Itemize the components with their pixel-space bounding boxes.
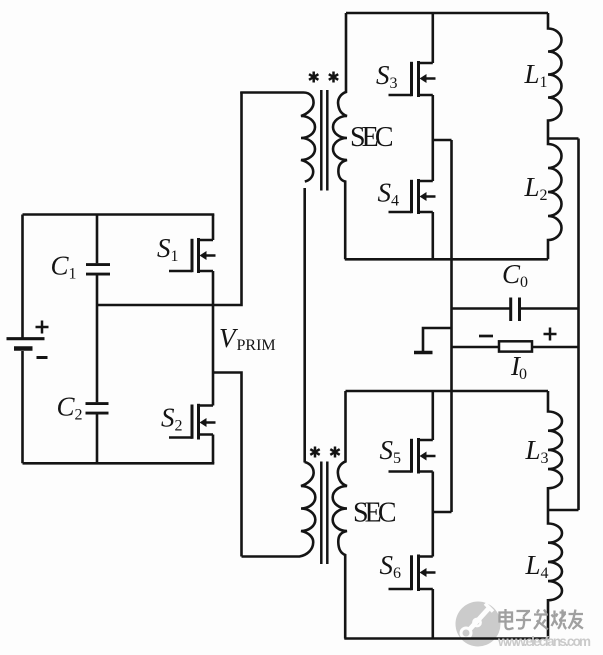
- wire bottom rail of upper output section: [345, 258, 548, 261]
- ground: [414, 328, 452, 353]
- polarity mark T1 primary: [309, 72, 318, 83]
- svg-text:C2: C2: [57, 392, 83, 424]
- transformer T2 core: [321, 462, 327, 565]
- svg-text:L1: L1: [524, 59, 548, 91]
- wire S6 source rail: [431, 589, 434, 639]
- transistor S1: [169, 238, 216, 273]
- capacitor C0: [452, 298, 579, 322]
- svg-text:L2: L2: [524, 172, 548, 204]
- svg-text:S6: S6: [380, 550, 402, 582]
- wire top rail of lower output section: [346, 390, 549, 393]
- resistor I0 shunt: [452, 328, 579, 352]
- wire S5 source to S6 drain rail: [431, 472, 434, 557]
- transistor S3: [389, 61, 436, 97]
- svg-text:S2: S2: [161, 403, 183, 435]
- wire top rail left box: [23, 213, 215, 216]
- transistor S6: [389, 555, 436, 592]
- svg-text:VPRIM: VPRIM: [219, 323, 276, 354]
- transformer T1 secondary winding: [333, 13, 347, 259]
- battery B1: [7, 215, 49, 464]
- svg-text:www.elecfans.com: www.elecfans.com: [497, 634, 591, 649]
- svg-text:S4: S4: [378, 178, 400, 210]
- wire L3 L4 tap: [548, 509, 579, 512]
- wire bottom rail left box: [23, 462, 215, 465]
- svg-text:S1: S1: [157, 233, 179, 265]
- polarity mark T2 primary: [310, 447, 319, 458]
- svg-text:C0: C0: [502, 259, 528, 291]
- inductor L3: [548, 391, 562, 510]
- wire midpoint jog lower: [433, 511, 452, 514]
- svg-text:S3: S3: [376, 60, 398, 92]
- svg-text:L3: L3: [525, 435, 549, 467]
- wire output positive vertical: [577, 139, 580, 511]
- transformer T2 secondary winding: [333, 391, 347, 639]
- wire midpoint jog to output common: [433, 139, 452, 142]
- transformer T2 primary winding: [242, 462, 316, 557]
- wire bottom rail of lower output section: [344, 637, 548, 640]
- wire output common vertical: [450, 140, 453, 512]
- watermark text: [497, 609, 591, 649]
- wire S1 source to S2 drain rail: [212, 271, 215, 406]
- wire mid node C1C2 to S1S2 and up to transformer T1 primary: [97, 92, 242, 305]
- transformer T1 core: [321, 90, 327, 191]
- svg-text:L4: L4: [525, 550, 549, 582]
- watermark logo: [456, 602, 501, 647]
- inductor L1: [548, 13, 562, 139]
- wire L1 L2 tap: [548, 137, 579, 140]
- svg-text:SEC: SEC: [353, 498, 397, 529]
- wire S2 source rail: [212, 435, 215, 464]
- wire V_PRIM lower jog to transformer T2 primary: [213, 373, 242, 557]
- wire S3 source to S4 drain rail: [431, 95, 434, 181]
- polarity mark T2 secondary: [330, 447, 339, 458]
- capacitor C2: [86, 305, 109, 463]
- polarity mark T1 secondary: [329, 72, 338, 83]
- inductor L4: [548, 510, 562, 639]
- capacitor C1: [86, 215, 110, 306]
- inductor L2: [548, 139, 562, 260]
- svg-text:I0: I0: [510, 351, 527, 383]
- svg-text:S5: S5: [380, 435, 402, 467]
- wire top rail of upper output section: [346, 12, 548, 15]
- transistor S5: [389, 438, 436, 474]
- wire S5 drain rail: [431, 391, 434, 440]
- wire T1 primary to T2 primary: [303, 188, 306, 463]
- wire S1 drain rail: [212, 215, 215, 241]
- transistor S2: [169, 404, 216, 440]
- transistor S4: [389, 179, 436, 214]
- wire S3 drain rail: [431, 13, 434, 63]
- svg-text:SEC: SEC: [350, 122, 394, 153]
- transformer T1 primary winding: [240, 93, 315, 182]
- svg-text:C1: C1: [51, 251, 77, 283]
- wire S4 source rail: [431, 212, 434, 259]
